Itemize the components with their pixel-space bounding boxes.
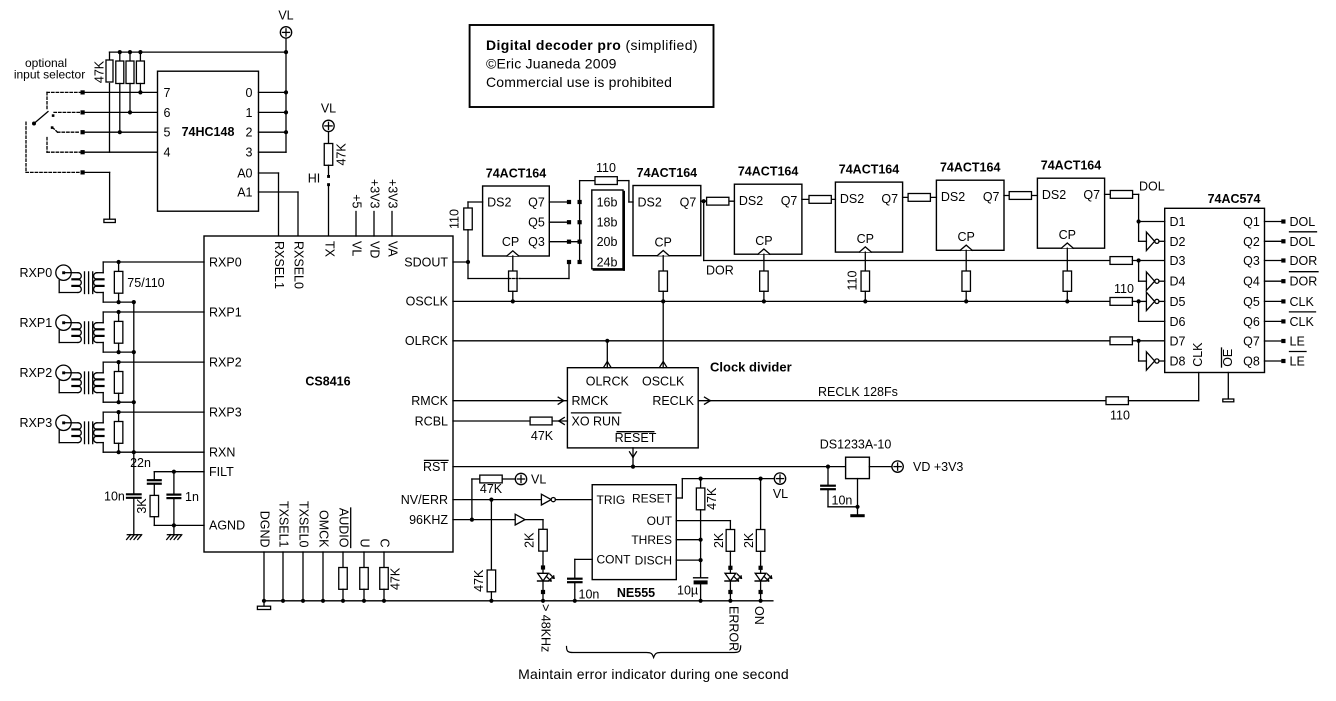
wire Q7 chip6 DOL with resistor (1105, 193, 1139, 195)
svg-text:74HC148: 74HC148 (182, 125, 235, 139)
svg-text:DS2: DS2 (739, 194, 763, 208)
svg-text:VL: VL (278, 9, 293, 23)
wire output Q7 (1265, 340, 1282, 342)
IC 74ACT164 #1 (483, 186, 550, 256)
svg-text:RXP3: RXP3 (209, 406, 242, 420)
resistor 110 (CP chip 1) (512, 256, 514, 271)
svg-text:Q6: Q6 (1243, 315, 1260, 329)
wire VL to pullup rail (285, 38, 287, 52)
resistor 47K (pullup pin4) (109, 52, 111, 60)
svg-text:22n: 22n (130, 456, 151, 470)
title box (470, 25, 714, 107)
resistor termination RXP1 (118, 312, 120, 321)
supply stubs +5 +3V3 +3V3 (355, 212, 357, 237)
svg-text:D2: D2 (1170, 235, 1186, 249)
wires 74HC148 outputs 0-3 tied to VL (259, 91, 287, 93)
inverter into D4 (1146, 272, 1154, 290)
svg-text:AGND: AGND (209, 519, 245, 533)
wire DOL to D1 (1139, 221, 1165, 223)
resistor termination RXP2 (118, 362, 120, 371)
svg-text:NV/ERR: NV/ERR (401, 493, 448, 507)
svg-text:10n: 10n (104, 490, 125, 504)
svg-text:CP: CP (655, 236, 672, 250)
svg-text:RXN: RXN (209, 446, 235, 460)
svg-text:LE: LE (1290, 335, 1305, 349)
resistor 110 (CP chip 6) (1066, 248, 1068, 271)
wire output Q6 (1265, 320, 1282, 322)
svg-text:TX: TX (323, 241, 337, 258)
svg-text:RESET: RESET (615, 431, 657, 445)
svg-text:2K: 2K (712, 532, 726, 548)
wire OSCLK tap to divider (662, 301, 664, 367)
wire DOR bus (704, 260, 1110, 262)
svg-text:110: 110 (1110, 409, 1130, 423)
wire jumper to TX (328, 187, 330, 236)
wire output Q5 (1265, 300, 1282, 302)
wire THRES (676, 539, 700, 541)
svg-text:Maintain error indicator durin: Maintain error indicator during one seco… (518, 666, 789, 682)
wire Q3 chip1 to pad (20b selected) (549, 241, 577, 243)
capacitor 22n (153, 472, 155, 479)
wire DGND to ground bus (263, 552, 265, 606)
svg-text:THRES: THRES (631, 533, 672, 547)
wire output Q4 (1265, 280, 1282, 282)
ground (selector common) (104, 219, 115, 222)
svg-text:74ACT164: 74ACT164 (1041, 159, 1101, 173)
power VL (NV/ERR pullup) (515, 473, 526, 484)
svg-text:75/110: 75/110 (127, 276, 164, 290)
svg-text:Q3: Q3 (1243, 254, 1260, 268)
svg-text:74ACT164: 74ACT164 (738, 165, 798, 179)
svg-text:RST: RST (423, 460, 448, 474)
wire TXSEL1 (282, 552, 284, 601)
LED ERROR (728, 566, 732, 570)
svg-text:RMCK: RMCK (411, 394, 448, 408)
svg-text:Clock divider: Clock divider (710, 360, 792, 375)
wire DOR from chip2 Q7 (703, 201, 705, 260)
transformer T4 (65, 422, 78, 424)
wire OLRCK tap to divider (606, 341, 608, 368)
wire NV/ERR (453, 499, 541, 501)
resistor 110 (selector to DS2 chip2) (579, 181, 581, 202)
svg-text:OSCLK: OSCLK (406, 295, 449, 309)
transformer T1 (65, 272, 78, 274)
svg-text:6: 6 (164, 106, 171, 120)
svg-text:Q7: Q7 (1243, 335, 1260, 349)
svg-text:VL: VL (531, 472, 546, 486)
IC 74ACT164 #4 (835, 182, 902, 252)
svg-text:OUT: OUT (647, 514, 673, 528)
svg-text:Q4: Q4 (1243, 275, 1260, 289)
wire divider RESET to RST line (632, 448, 634, 467)
svg-text:FILT: FILT (209, 465, 234, 479)
svg-text:47K: 47K (472, 569, 486, 592)
wire Q7 chip4 to chip5 with resistor (903, 196, 937, 198)
inverter into D5 (1146, 292, 1154, 310)
wire DISCH (676, 559, 700, 561)
IC U1 74HC148 (158, 71, 259, 211)
transformer T2 (65, 322, 78, 324)
svg-text:D7: D7 (1170, 335, 1186, 349)
svg-text:CP: CP (755, 234, 772, 248)
svg-text:74ACT164: 74ACT164 (940, 161, 1000, 175)
svg-text:RXP0: RXP0 (209, 255, 242, 269)
svg-text:CP: CP (857, 232, 874, 246)
jumper pads column 1 (567, 200, 571, 204)
svg-text:20b: 20b (597, 235, 618, 249)
svg-text:RXP1: RXP1 (209, 305, 242, 319)
svg-text:RXP2: RXP2 (209, 355, 242, 369)
svg-text:RXP1: RXP1 (20, 316, 53, 330)
svg-text:24b: 24b (597, 256, 618, 270)
jumper pads column 2 (578, 200, 582, 204)
wire FILT (154, 471, 204, 473)
svg-text:Commercial use is prohibited: Commercial use is prohibited (486, 74, 672, 90)
wire selector common to ground (83, 171, 110, 173)
word width selection box 16b 18b 20b 24b (592, 190, 623, 269)
svg-text:+3V3: +3V3 (368, 179, 382, 209)
svg-text:DGND: DGND (258, 511, 272, 548)
svg-text:input selector: input selector (14, 68, 85, 82)
svg-text:C: C (378, 538, 392, 547)
svg-text:7: 7 (164, 86, 171, 100)
svg-text:OE: OE (1221, 349, 1235, 367)
svg-text:AUDIO: AUDIO (337, 508, 351, 548)
wire SDOUT reroute to 24b pad (467, 262, 469, 279)
svg-text:Q7: Q7 (983, 190, 1000, 204)
svg-text:RECLK 128Fs: RECLK 128Fs (818, 385, 898, 399)
IC 74ACT164 #3 (734, 184, 802, 254)
buffer (NV/ERR inverter) (541, 494, 551, 505)
jumper HI pads (327, 175, 330, 178)
svg-text:47K: 47K (531, 429, 554, 443)
clock wedge chip 5 (960, 245, 972, 250)
svg-text:OSCLK: OSCLK (642, 375, 685, 389)
svg-text:3K: 3K (135, 498, 149, 514)
capacitor 10u electrolytic (694, 577, 708, 579)
svg-text:NE555: NE555 (617, 586, 655, 600)
svg-text:VA: VA (386, 241, 400, 257)
wire input row 7 (83, 91, 158, 93)
wire secondary to RXP3 pin (97, 422, 103, 424)
IC NE555 (592, 485, 676, 580)
svg-text:Q8: Q8 (1243, 355, 1260, 369)
resistor 3K (153, 485, 155, 496)
wire DOR to D4 inverter (1138, 261, 1140, 282)
resistor 47K (RCBL / XO RUN) (453, 420, 530, 422)
svg-text:DOL: DOL (1290, 235, 1316, 249)
wire Q7 chip2 to chip3 with resistor (701, 200, 735, 202)
wire secondary bottom rail (97, 442, 103, 444)
svg-text:RXP3: RXP3 (20, 416, 53, 430)
svg-text:A1: A1 (237, 185, 252, 199)
resistor 47K (pullup pin7) (139, 52, 141, 60)
svg-text:3: 3 (246, 146, 253, 160)
svg-text:VD: VD (368, 241, 382, 258)
svg-text:Q2: Q2 (1243, 235, 1260, 249)
svg-text:10n: 10n (579, 588, 600, 602)
wire A1 to RXSEL0 (259, 191, 299, 193)
svg-text:110: 110 (846, 270, 860, 290)
svg-text:CONT: CONT (597, 553, 632, 567)
svg-text:RCBL: RCBL (415, 414, 448, 428)
wire secondary to RXP2 pin (97, 372, 103, 374)
svg-text:Q7: Q7 (680, 196, 697, 210)
svg-text:LE: LE (1290, 355, 1305, 369)
svg-text:U: U (358, 538, 372, 547)
resistor 2K (ERROR LED) (676, 520, 730, 522)
clock divider box (567, 368, 698, 448)
svg-text:ERROR: ERROR (727, 606, 741, 651)
inverter into D8 (1146, 352, 1154, 370)
svg-text:VD +3V3: VD +3V3 (913, 460, 963, 474)
wire output Q1 (1265, 221, 1282, 223)
ground bus (264, 600, 773, 602)
resistor 47K (NE555 RESET pullup) (700, 479, 702, 488)
ground (DGND) (257, 606, 270, 609)
svg-text:74ACT164: 74ACT164 (839, 163, 899, 177)
svg-text:110: 110 (1114, 282, 1134, 296)
svg-text:Q5: Q5 (528, 216, 545, 230)
buffer (96KHZ) (515, 514, 525, 525)
wire secondary bottom rail (97, 392, 103, 394)
resistor 110 (CP chip 3) (763, 254, 765, 271)
svg-text:HI: HI (308, 172, 321, 186)
svg-text:18b: 18b (597, 216, 618, 230)
svg-text:2K: 2K (523, 532, 537, 548)
wire Q7 chip5 to chip6 with resistor (1004, 195, 1037, 197)
svg-text:47K: 47K (389, 567, 403, 590)
resistor 110 (CP chip 2) (662, 256, 664, 271)
svg-text:D4: D4 (1170, 275, 1186, 289)
resistor 110 (CP chip 4) (864, 252, 866, 271)
svg-text:TXSEL1: TXSEL1 (277, 501, 291, 548)
LED (48KHz) (541, 565, 545, 569)
wire output Q2 (1265, 240, 1282, 242)
IC 74ACT164 #5 (936, 180, 1004, 250)
svg-text:1: 1 (246, 106, 253, 120)
svg-text:D5: D5 (1170, 295, 1186, 309)
clock wedge chip 3 (758, 249, 770, 254)
capacitor 1n (173, 472, 175, 494)
svg-text:©Eric Juaneda 2009: ©Eric Juaneda 2009 (486, 56, 617, 72)
ground (DS1233) (852, 514, 863, 517)
svg-text:ON: ON (752, 606, 766, 625)
svg-text:RXSEL1: RXSEL1 (272, 241, 286, 289)
resistor termination RXP0 (118, 262, 120, 271)
svg-text:TXSEL0: TXSEL0 (297, 501, 311, 548)
resistor 110 (OLRCK into D7) (1110, 337, 1132, 345)
svg-text:DOL: DOL (1139, 180, 1165, 194)
svg-text:Q7: Q7 (528, 196, 545, 210)
wire OMCK (322, 552, 324, 601)
svg-text:110: 110 (448, 209, 462, 229)
wire RST (453, 466, 846, 468)
resistor 47K (pullup pin6) (129, 52, 131, 60)
wire RXN common bus (133, 302, 135, 452)
svg-text:CS8416: CS8416 (305, 375, 350, 389)
brace: maintain error indicator (567, 646, 741, 658)
svg-text:RXP0: RXP0 (20, 266, 53, 280)
svg-text:47K: 47K (335, 143, 349, 166)
wire secondary to RXP0 pin (97, 272, 103, 274)
svg-text:DISCH: DISCH (635, 553, 672, 567)
wire secondary to RXP1 pin (97, 322, 103, 324)
svg-text:VL: VL (350, 241, 364, 256)
svg-text:10µ: 10µ (677, 584, 698, 598)
svg-text:47K: 47K (705, 487, 719, 510)
wire DS1233 gnd (857, 479, 859, 515)
wire Q7 chip3 to chip4 with resistor (802, 198, 836, 200)
svg-text:DS2: DS2 (1042, 188, 1066, 202)
wire input row 5 (83, 131, 158, 133)
LED ON (759, 566, 763, 570)
svg-text:CP: CP (502, 235, 519, 249)
resistor 47K (AUDIO) (342, 552, 344, 568)
svg-text:47K: 47K (480, 482, 503, 496)
svg-text:XO RUN: XO RUN (572, 414, 621, 428)
svg-text:A0: A0 (237, 166, 252, 180)
svg-text:CLK: CLK (1290, 315, 1315, 329)
svg-text:10n: 10n (832, 494, 853, 508)
wire output Q3 (1265, 260, 1282, 262)
svg-text:RMCK: RMCK (572, 394, 609, 408)
ground (OE) (1223, 399, 1234, 402)
svg-text:Digital decoder pro (simplifie: Digital decoder pro (simplified) (486, 37, 698, 53)
svg-text:+3V3: +3V3 (386, 179, 400, 209)
resistor 110 (SDOUT to DS2 chip1) (468, 201, 483, 203)
svg-text:Q7: Q7 (781, 194, 798, 208)
svg-text:74ACT164: 74ACT164 (486, 167, 546, 181)
wire Q5 chip1 to pad (549, 221, 567, 223)
resistor 47K (NV/ERR pullup to VL) (472, 478, 480, 480)
svg-text:74AC574: 74AC574 (1208, 192, 1261, 206)
svg-text:Q5: Q5 (1243, 295, 1260, 309)
wire secondary bottom rail (97, 342, 103, 344)
IC U2 CS8416 (204, 236, 453, 552)
svg-text:110: 110 (596, 161, 616, 175)
svg-text:RESET: RESET (632, 491, 673, 505)
ground (RXN filter) (127, 534, 140, 536)
svg-text:RECLK: RECLK (652, 394, 694, 408)
wire selector common column (579, 202, 581, 262)
wire secondary bottom rail (97, 292, 103, 294)
svg-text:96KHZ: 96KHZ (409, 513, 448, 527)
clock wedge chip 1 (507, 251, 519, 256)
wire pullup rail (110, 51, 287, 53)
svg-text:DOL: DOL (1290, 215, 1316, 229)
svg-text:16b: 16b (597, 196, 618, 210)
capacitor 10n (CONT) (575, 558, 592, 560)
clock wedge chip 6 (1061, 243, 1073, 248)
wire input row 6 (83, 111, 158, 113)
svg-text:Q1: Q1 (1243, 215, 1260, 229)
svg-text:5: 5 (164, 126, 171, 140)
clock wedge chip 4 (859, 247, 871, 252)
svg-text:D1: D1 (1170, 215, 1186, 229)
svg-text:CP: CP (958, 230, 975, 244)
svg-text:DS2: DS2 (638, 196, 662, 210)
wire OSCLK bus (453, 300, 1110, 302)
selector switch dashed wiring (26, 92, 81, 172)
svg-text:2K: 2K (742, 532, 756, 548)
svg-text:DS2: DS2 (941, 190, 965, 204)
svg-text:DOR: DOR (1290, 254, 1318, 268)
svg-text:RXSEL0: RXSEL0 (292, 241, 306, 289)
IC DS1233A-10 (846, 457, 870, 478)
transformer T3 (65, 372, 78, 374)
wire RECLK 128Fs (698, 400, 1106, 402)
capacitor 10n (RXN filter) (133, 452, 135, 493)
svg-text:47K: 47K (93, 60, 107, 83)
wire A0 to RXSEL1 (259, 172, 279, 174)
clock wedge chip 2 (657, 251, 669, 256)
svg-text:VL: VL (773, 487, 788, 501)
svg-text:DS2: DS2 (487, 196, 511, 210)
svg-text:+5: +5 (350, 194, 364, 208)
wire OSCLK to D5 inverter / D6 (1138, 301, 1140, 321)
svg-text:1n: 1n (185, 490, 199, 504)
junction dots on rail (118, 50, 122, 54)
wire Q7 chip1 to pad (549, 201, 567, 203)
svg-text:OLRCK: OLRCK (586, 375, 630, 389)
svg-text:CLK: CLK (1191, 342, 1205, 367)
wire input row 4 (83, 151, 158, 153)
wire OLRCK to D7 / D8 inverter (1138, 341, 1140, 361)
ground (AGND) (173, 525, 175, 534)
resistor 47K (NV/ERR pulldown) (490, 500, 492, 570)
IC 74ACT164 #2 (633, 186, 701, 256)
svg-text:TRIG: TRIG (597, 493, 626, 507)
resistor 110 (RECLK) (1106, 397, 1128, 405)
wire pullup to 96KHZ line (471, 479, 473, 520)
svg-text:Q7: Q7 (1083, 188, 1100, 202)
svg-text:> 48KHz: > 48KHz (539, 604, 553, 652)
resistor 47K (U) (363, 552, 365, 568)
resistor 2K (48KHz LED) (542, 520, 544, 530)
power VL (NE555) (774, 473, 785, 484)
capacitor 10n (DS1233) (827, 467, 829, 485)
IC 74ACT164 #6 (1037, 178, 1104, 248)
svg-text:VL: VL (321, 102, 336, 116)
svg-text:SDOUT: SDOUT (404, 255, 448, 269)
svg-text:2: 2 (246, 126, 253, 140)
resistor 110 (CP chip 5) (965, 250, 967, 271)
wire RMCK (453, 400, 567, 402)
svg-text:DS2: DS2 (840, 192, 864, 206)
svg-text:CP: CP (1059, 228, 1076, 242)
svg-text:DOR: DOR (1290, 275, 1318, 289)
resistor 110 (OSCLK into D5) (1110, 298, 1132, 306)
svg-text:DOR: DOR (706, 264, 734, 278)
resistor termination RXP3 (118, 412, 120, 421)
resistor 110 (DOR into D3) (1110, 257, 1132, 265)
svg-text:0: 0 (246, 86, 253, 100)
resistor 47K (TX pullup) (328, 132, 330, 144)
resistor 2K (ON LED) (760, 479, 762, 530)
solder pads input rows (81, 90, 85, 94)
svg-text:OMCK: OMCK (317, 510, 331, 548)
selector switch arm (34, 112, 48, 124)
wire output Q8 (1265, 360, 1282, 362)
wire OLRCK bus (453, 340, 1110, 342)
svg-text:D6: D6 (1170, 315, 1186, 329)
wire NE555 RESET to VL rail (676, 497, 682, 499)
wire 96KHZ (453, 519, 515, 521)
wire AGND (154, 524, 204, 526)
svg-text:D8: D8 (1170, 355, 1186, 369)
svg-text:Q7: Q7 (881, 192, 898, 206)
